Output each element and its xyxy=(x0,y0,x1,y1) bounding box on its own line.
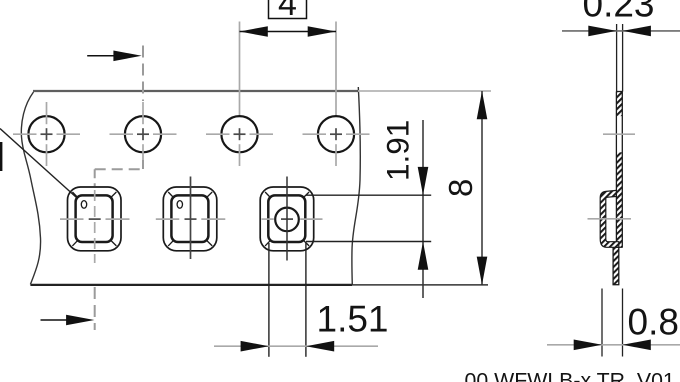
dimension 4: extension lines xyxy=(239,22,241,116)
pocket P2 centerlines xyxy=(156,177,226,260)
dimension 1.51: extension lines xyxy=(268,243,270,357)
pocket P3 inner xyxy=(268,195,305,242)
pocket P1 inner xyxy=(76,195,113,242)
side view lower strip xyxy=(613,247,619,284)
dimension 1.91: dimension line with outside arrows xyxy=(418,120,429,298)
tape left break line xyxy=(21,92,40,284)
dimension 0.23: extension lines xyxy=(616,24,618,92)
pocket P2 polarity mark xyxy=(177,201,182,209)
pocket P2 outer xyxy=(163,187,217,251)
svg-text:1.91: 1.91 xyxy=(380,120,416,181)
pocket P1 corner diagonals xyxy=(72,192,116,246)
dimension 1.51: dimension line with outside arrows xyxy=(214,341,378,352)
sprocket hole 3 xyxy=(206,116,273,166)
dimension 8: bottom extension line xyxy=(352,284,488,286)
leader line to pocket 1 xyxy=(0,129,77,198)
sprocket hole 1 xyxy=(13,102,80,166)
svg-text:1.51: 1.51 xyxy=(317,299,389,340)
pocket P2 inner xyxy=(171,195,208,242)
side view sprocket centerline xyxy=(603,133,635,135)
feed direction arrow top xyxy=(87,51,142,62)
dashed link hole2 to pocket1 xyxy=(95,160,143,186)
side view tape strip xyxy=(615,92,624,248)
pocket P1 centerlines xyxy=(60,190,130,263)
pocket P1 outer xyxy=(68,187,122,251)
dimension 0.23: dimension line with outside arrows xyxy=(562,26,680,37)
svg-text:8: 8 xyxy=(442,179,479,197)
side view pocket bump xyxy=(600,190,619,247)
dimension 1.91: extension lines xyxy=(306,194,431,196)
tape top edge xyxy=(33,90,358,92)
dimension 0.8: extension lines xyxy=(601,289,603,357)
feed direction arrow bottom xyxy=(41,315,95,326)
side view pocket centerline xyxy=(588,218,632,220)
feed mark dashed line at hole 2 xyxy=(142,46,144,102)
feed mark dashed line below pocket 1 xyxy=(94,287,96,330)
label stub at left edge xyxy=(0,142,2,171)
dimension 4: dimension line with arrows xyxy=(240,26,337,37)
dimension 0.8: dimension line with outside arrows xyxy=(547,340,680,351)
pocket P3 corner diagonals xyxy=(265,192,309,246)
tape right break line xyxy=(352,87,360,285)
pocket P3 centerlines xyxy=(262,177,323,261)
svg-text:4: 4 xyxy=(278,0,297,23)
tape bottom edge xyxy=(30,284,352,286)
svg-text:0.8: 0.8 xyxy=(628,302,679,343)
svg-text:00 WFWLB-x TR V01: 00 WFWLB-x TR V01 xyxy=(465,369,675,382)
pocket P1 polarity mark xyxy=(81,201,86,209)
svg-text:0.23: 0.23 xyxy=(583,0,655,24)
pocket P2 corner diagonals xyxy=(168,192,212,246)
pocket P3 outer xyxy=(260,187,314,251)
sprocket hole 4 xyxy=(303,116,370,166)
pocket P3 hole circle xyxy=(275,208,299,232)
dimension 8: dimension line with arrows xyxy=(477,91,488,285)
dimension 4: box xyxy=(269,0,307,19)
dimension 8: top extension line xyxy=(358,90,491,92)
sprocket hole 2 xyxy=(110,102,177,166)
